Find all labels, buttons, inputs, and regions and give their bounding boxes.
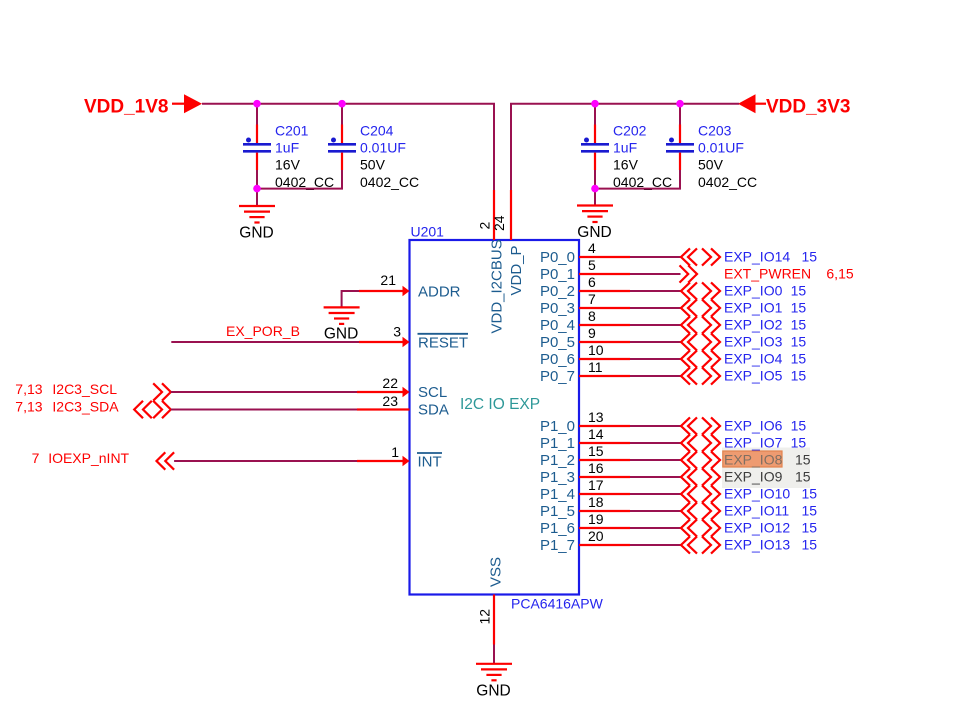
svg-text:14: 14: [588, 426, 604, 442]
pin 15 P1_2: [540, 443, 630, 469]
svg-text:EXP_IO14: EXP_IO14: [724, 249, 790, 265]
pin 7 P0_3: [540, 291, 630, 317]
wire EXP_IO1: [630, 307, 681, 309]
junction: [253, 100, 261, 108]
svg-text:P0_0: P0_0: [540, 249, 575, 266]
svg-text:0.01UF: 0.01UF: [360, 140, 406, 156]
svg-text:1: 1: [391, 444, 399, 460]
svg-text:P0_1: P0_1: [540, 266, 575, 283]
svg-text:P0_2: P0_2: [540, 283, 575, 300]
svg-text:C201: C201: [275, 122, 309, 138]
svg-text:EXP_IO9: EXP_IO9: [724, 469, 783, 485]
svg-text:C203: C203: [698, 122, 732, 138]
label C201 values: [275, 122, 334, 190]
pin name INT (overline): [417, 453, 442, 471]
svg-text:INT: INT: [418, 454, 442, 471]
pin 11 P0_7: [540, 359, 630, 385]
svg-text:EXP_IO7: EXP_IO7: [724, 435, 783, 451]
svg-text:17: 17: [588, 477, 604, 493]
svg-text:P1_4: P1_4: [540, 486, 575, 503]
svg-text:15: 15: [802, 503, 818, 519]
svg-text:7,13: 7,13: [15, 399, 42, 415]
junction: [676, 100, 684, 108]
svg-text:C202: C202: [613, 122, 647, 138]
svg-text:EXP_IO1: EXP_IO1: [724, 300, 783, 316]
svg-text:IOEXP_nINT: IOEXP_nINT: [48, 450, 129, 466]
svg-text:P1_3: P1_3: [540, 469, 575, 486]
svg-text:15: 15: [802, 537, 818, 553]
svg-text:15: 15: [791, 368, 807, 384]
junction: [338, 100, 346, 108]
svg-text:EXP_IO6: EXP_IO6: [724, 418, 783, 434]
svg-text:P0_6: P0_6: [540, 351, 575, 368]
power symbol VDD_3V3: [738, 94, 851, 117]
power symbol VDD_1V8: [84, 94, 202, 117]
svg-text:1uF: 1uF: [613, 140, 637, 156]
wire EXP_IO13: [630, 544, 681, 546]
pin 24 VDD_P stub: [510, 190, 512, 240]
svg-text:GND: GND: [324, 326, 358, 343]
pin 18 P1_5: [540, 494, 630, 520]
ground: [476, 645, 512, 700]
svg-text:6,15: 6,15: [826, 266, 853, 282]
svg-text:EXP_IO11: EXP_IO11: [724, 503, 789, 519]
svg-text:VSS: VSS: [488, 557, 505, 587]
port I2C3_SDA (bidir chevrons): [15, 399, 171, 419]
svg-text:15: 15: [791, 300, 807, 316]
svg-text:P1_5: P1_5: [540, 503, 575, 520]
svg-text:15: 15: [791, 283, 807, 299]
svg-text:15: 15: [802, 249, 818, 265]
svg-text:EX_POR_B: EX_POR_B: [226, 323, 300, 339]
svg-text:15: 15: [795, 452, 811, 468]
svg-text:15: 15: [791, 334, 807, 350]
pin 23 SDA: [357, 393, 410, 410]
pin 16 P1_3: [540, 460, 630, 486]
port EXP_IO2: [681, 316, 806, 333]
pin 20 P1_7: [540, 528, 630, 554]
pin 5 P0_1: [540, 257, 630, 283]
wire EXP_IO4: [630, 358, 681, 360]
svg-text:15: 15: [791, 418, 807, 434]
svg-text:EXP_IO2: EXP_IO2: [724, 317, 783, 333]
svg-text:P1_2: P1_2: [540, 452, 575, 469]
wire VDD_3V3 rail: [511, 104, 739, 190]
svg-text:12: 12: [477, 609, 493, 625]
svg-text:P1_1: P1_1: [540, 435, 575, 452]
capacitor C203: [666, 104, 694, 189]
pin 10 P0_6: [540, 342, 630, 368]
highlight selection EXP_IO8: [723, 451, 782, 467]
svg-text:EXP_IO8: EXP_IO8: [724, 452, 783, 468]
capacitor C201: [243, 104, 271, 189]
svg-text:10: 10: [588, 342, 604, 358]
pin 13 P1_0: [540, 409, 630, 435]
wire I2C3_SDA: [171, 409, 357, 411]
svg-text:I2C3_SCL: I2C3_SCL: [52, 381, 117, 397]
svg-text:19: 19: [588, 511, 604, 527]
port EXP_IO11: [681, 502, 817, 519]
junction: [591, 100, 599, 108]
wire EXP_IO11: [630, 510, 681, 512]
svg-text:20: 20: [588, 528, 604, 544]
svg-text:9: 9: [588, 325, 596, 341]
wire EXP_IO10: [630, 493, 681, 495]
pin 9 P0_5: [540, 325, 630, 351]
svg-text:15: 15: [802, 486, 818, 502]
wire EXP_IO5: [630, 375, 681, 377]
svg-text:EXP_IO5: EXP_IO5: [724, 368, 783, 384]
svg-text:VDD_I2CBUS: VDD_I2CBUS: [489, 239, 506, 333]
pin 8 P0_4: [540, 308, 630, 334]
svg-text:23: 23: [382, 393, 398, 409]
pin 14 P1_1: [540, 426, 630, 452]
port EXP_IO0: [681, 282, 806, 299]
svg-text:15: 15: [791, 351, 807, 367]
svg-text:EXP_IO0: EXP_IO0: [724, 283, 783, 299]
svg-text:GND: GND: [577, 224, 611, 241]
wire EXP_IO3: [630, 341, 681, 343]
port EXP_IO13: [681, 536, 817, 553]
svg-text:13: 13: [588, 409, 604, 425]
ground: [239, 189, 275, 242]
svg-text:VDD_1V8: VDD_1V8: [84, 96, 169, 117]
port EXP_IO4: [681, 350, 806, 367]
svg-text:RESET: RESET: [418, 335, 468, 352]
wire I2C3_SCL: [171, 391, 357, 393]
wire EXP_IO2: [630, 324, 681, 326]
svg-text:7,13: 7,13: [15, 381, 42, 397]
port EXT_PWREN: [680, 265, 854, 282]
pin 4 P0_0: [540, 240, 630, 266]
wire EX_POR_B: [171, 341, 359, 343]
svg-text:16V: 16V: [613, 157, 639, 173]
svg-text:SCL: SCL: [418, 384, 447, 401]
pin 12 VSS stub: [493, 595, 495, 645]
svg-text:P0_7: P0_7: [540, 368, 575, 385]
wire EXP_IO7: [630, 442, 681, 444]
svg-text:1uF: 1uF: [275, 140, 299, 156]
port EXP_IO10: [681, 485, 817, 502]
svg-text:PCA6416APW: PCA6416APW: [511, 596, 604, 612]
svg-text:22: 22: [382, 375, 398, 391]
junction: [253, 185, 261, 193]
pin 2 VDD_I2CBUS stub: [493, 190, 495, 240]
pin name RESET (overline): [418, 334, 469, 352]
wire EXP_IO9: [630, 476, 681, 478]
svg-text:GND: GND: [476, 682, 510, 699]
wire cap bottom bus left: [257, 170, 342, 189]
port EXP_IO1: [681, 299, 806, 316]
wire EXP_IO12: [630, 527, 681, 529]
svg-text:P1_7: P1_7: [540, 537, 575, 554]
svg-text:EXP_IO4: EXP_IO4: [724, 351, 783, 367]
label C202 values: [613, 122, 672, 190]
ground: [324, 307, 360, 342]
svg-text:P0_5: P0_5: [540, 334, 575, 351]
svg-text:7: 7: [32, 450, 40, 466]
svg-text:18: 18: [588, 494, 604, 510]
pin 21 ADDR: [359, 272, 410, 296]
svg-text:EXT_PWREN: EXT_PWREN: [724, 266, 811, 282]
svg-text:I2C IO EXP: I2C IO EXP: [460, 396, 540, 413]
svg-text:SDA: SDA: [418, 402, 449, 419]
svg-text:VDD_3V3: VDD_3V3: [766, 96, 851, 117]
port IOEXP_nINT (output chevrons): [32, 450, 175, 470]
label C203 values: [698, 122, 757, 190]
port I2C3_SCL (input chevrons): [15, 381, 171, 401]
svg-text:EXP_IO10: EXP_IO10: [724, 486, 790, 502]
svg-text:GND: GND: [239, 225, 273, 242]
pin 22 SCL: [357, 375, 410, 397]
junction: [591, 185, 599, 193]
svg-text:15: 15: [802, 520, 818, 536]
wire IOEXP_nINT: [174, 460, 357, 462]
svg-text:P0_3: P0_3: [540, 300, 575, 317]
capacitor C204: [328, 104, 356, 189]
svg-text:11: 11: [588, 359, 603, 375]
svg-text:EXP_IO3: EXP_IO3: [724, 334, 783, 350]
highlight background EXP_IO8/EXP_IO9: [722, 448, 810, 489]
pin 19 P1_6: [540, 511, 630, 537]
op: IC body U201: [410, 240, 580, 595]
svg-text:ADDR: ADDR: [418, 284, 461, 301]
svg-text:15: 15: [791, 435, 807, 451]
svg-text:EXP_IO12: EXP_IO12: [724, 520, 790, 536]
wire cap bottom bus right: [595, 170, 680, 189]
svg-text:4: 4: [588, 240, 596, 256]
svg-text:EXP_IO13: EXP_IO13: [724, 537, 790, 553]
svg-text:15: 15: [795, 469, 811, 485]
capacitor C202: [581, 104, 609, 189]
svg-text:I2C3_SDA: I2C3_SDA: [52, 399, 119, 415]
svg-text:3: 3: [393, 324, 401, 340]
port EXP_IO14: [681, 248, 817, 265]
svg-text:16V: 16V: [275, 157, 301, 173]
svg-text:0402_CC: 0402_CC: [275, 174, 334, 190]
svg-text:0402_CC: 0402_CC: [698, 174, 757, 190]
pin 3 RESET: [359, 324, 410, 348]
svg-text:P1_0: P1_0: [540, 418, 575, 435]
port EXP_IO12: [681, 519, 817, 536]
svg-text:P1_6: P1_6: [540, 520, 575, 537]
port EXP_IO8: [681, 451, 811, 468]
wire EXP_IO8: [630, 459, 681, 461]
svg-text:15: 15: [791, 317, 807, 333]
ground: [577, 189, 613, 241]
svg-text:50V: 50V: [360, 157, 386, 173]
pin 17 P1_4: [540, 477, 630, 503]
port EXP_IO7: [681, 434, 806, 451]
svg-text:50V: 50V: [698, 157, 724, 173]
wire EXP_IO0: [630, 290, 681, 292]
wire VDD_1V8 rail: [202, 104, 494, 190]
svg-text:8: 8: [588, 308, 596, 324]
wire EXP_IO14: [630, 256, 681, 258]
port EXP_IO5: [681, 367, 806, 384]
port EXP_IO9: [681, 468, 811, 485]
port EXP_IO3: [681, 333, 806, 350]
port EXP_IO6: [681, 417, 806, 434]
svg-text:U201: U201: [411, 224, 445, 240]
svg-text:VDD_P: VDD_P: [508, 245, 525, 295]
wire EXP_IO6: [630, 425, 681, 427]
label C204 values: [360, 122, 419, 190]
svg-text:6: 6: [588, 274, 596, 290]
svg-text:5: 5: [588, 257, 596, 273]
svg-text:15: 15: [588, 443, 604, 459]
svg-text:0402_CC: 0402_CC: [360, 174, 419, 190]
svg-text:7: 7: [588, 291, 596, 307]
pin 6 P0_2: [540, 274, 630, 300]
svg-text:21: 21: [380, 272, 396, 288]
svg-text:C204: C204: [360, 122, 394, 138]
svg-text:24: 24: [491, 215, 507, 231]
svg-text:0402_CC: 0402_CC: [613, 174, 672, 190]
svg-text:0.01UF: 0.01UF: [698, 140, 744, 156]
svg-text:16: 16: [588, 460, 604, 476]
wire ADDR to ground: [342, 291, 359, 307]
wire EXT_PWREN: [630, 273, 681, 275]
svg-text:P0_4: P0_4: [540, 317, 575, 334]
pin 1 INT: [357, 444, 410, 466]
